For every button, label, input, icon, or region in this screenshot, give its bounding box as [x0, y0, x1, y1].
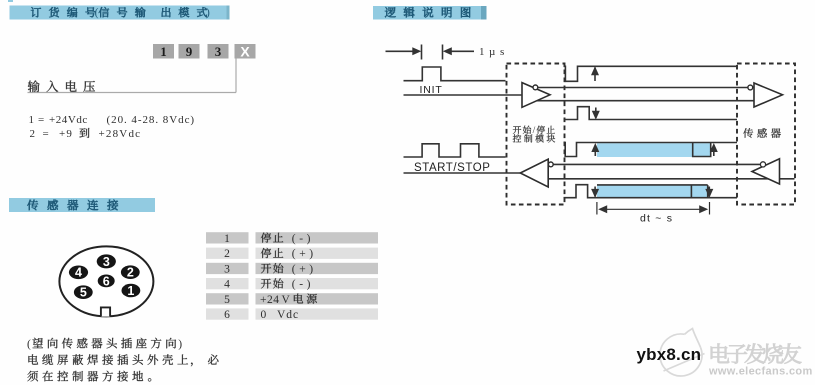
svg-text:3: 3: [224, 263, 230, 275]
svg-text:(: (: [27, 339, 31, 351]
svg-text:+24Vdc: +24Vdc: [49, 114, 88, 126]
svg-text:1: 1: [29, 114, 35, 126]
svg-text:Vdc: Vdc: [277, 309, 299, 321]
svg-text:2: 2: [30, 128, 36, 140]
svg-text:(+): (+): [292, 248, 317, 260]
svg-text:4: 4: [75, 266, 82, 280]
svg-text:4: 4: [224, 279, 230, 291]
svg-text:0: 0: [261, 309, 267, 321]
svg-text:2: 2: [127, 266, 134, 280]
svg-text:1: 1: [479, 46, 485, 58]
svg-text:+24: +24: [260, 294, 280, 306]
svg-text:(-): (-): [292, 279, 314, 291]
svg-text:+28Vdc: +28Vdc: [99, 128, 142, 140]
svg-text:+9: +9: [59, 128, 73, 140]
svg-text:=: =: [38, 114, 44, 126]
svg-text:1: 1: [160, 44, 167, 59]
svg-text:V: V: [282, 294, 291, 306]
svg-text:): ): [178, 339, 182, 351]
svg-text:www.elecfans.com: www.elecfans.com: [708, 366, 813, 378]
svg-text:/: /: [533, 126, 536, 136]
svg-text:6: 6: [103, 274, 110, 288]
svg-text:(-): (-): [292, 233, 314, 245]
svg-text:(20. 4-28. 8Vdc): (20. 4-28. 8Vdc): [107, 114, 196, 126]
svg-text:s: s: [500, 46, 504, 58]
svg-text:(+): (+): [292, 263, 317, 275]
svg-text:5: 5: [80, 286, 87, 300]
svg-text:1: 1: [224, 233, 230, 245]
svg-text:3: 3: [103, 255, 110, 269]
svg-text:6: 6: [224, 309, 230, 321]
svg-text:1: 1: [127, 284, 134, 298]
svg-text:): ): [206, 7, 210, 19]
svg-text:2: 2: [224, 248, 230, 260]
svg-text:9: 9: [186, 44, 193, 59]
svg-text:START/STOP: START/STOP: [414, 162, 490, 174]
svg-text:3: 3: [215, 44, 222, 59]
svg-text:INIT: INIT: [420, 84, 443, 96]
svg-text:=: =: [43, 128, 49, 140]
svg-text:µ: µ: [489, 46, 495, 58]
svg-text:5: 5: [224, 294, 230, 306]
svg-text:X: X: [240, 43, 250, 59]
svg-text:dt ~ s: dt ~ s: [640, 213, 673, 225]
svg-text:(: (: [95, 7, 99, 19]
svg-text:ybx8.cn: ybx8.cn: [637, 345, 702, 364]
